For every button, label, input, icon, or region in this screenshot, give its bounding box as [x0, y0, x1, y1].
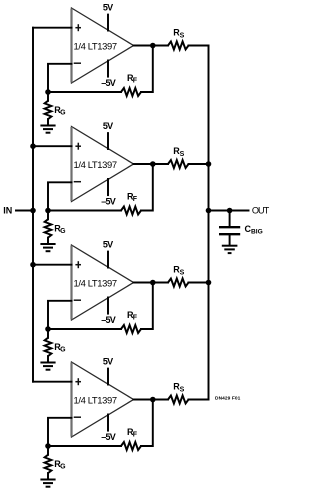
- wire: noninverting input of U1b from input bus: [33, 145, 72, 147]
- svg-text:5V: 5V: [103, 121, 113, 131]
- junction: output bus / stage 2: [206, 161, 212, 167]
- wire: output of U1c to RS: [134, 282, 169, 284]
- wire: inverting input of U1a down to summing node: [48, 64, 72, 92]
- junction: output feedback tap (stage 2): [150, 161, 156, 167]
- wire: RS (stage 4) to output bus: [189, 399, 209, 401]
- 5V supply pin of U1c: [103, 240, 113, 268]
- svg-text:–5V: –5V: [101, 432, 116, 442]
- resistor RF (stage 4): [121, 427, 141, 450]
- op-amp U1b 1/4 LT1397: [72, 127, 134, 202]
- svg-text:5V: 5V: [103, 357, 113, 367]
- op-amp U1a 1/4 LT1397: [72, 8, 134, 83]
- junction: output bus / OUT: [206, 208, 212, 214]
- junction: summing node (stage 3): [45, 326, 51, 332]
- wire: summing node to RF (stage 3): [48, 328, 121, 330]
- resistor RS (stage 2): [168, 146, 189, 168]
- ground: below RG (stage 3): [40, 363, 55, 370]
- svg-text:1/4 LT1397: 1/4 LT1397: [74, 395, 118, 406]
- junction: summing node (stage 2): [45, 208, 51, 214]
- svg-text:–5V: –5V: [101, 197, 116, 207]
- resistor RF (stage 2): [121, 191, 141, 214]
- svg-text:OUT: OUT: [252, 206, 270, 216]
- wire: noninverting input of U1a from input bus: [33, 27, 72, 29]
- wire: output of U1a to RS: [134, 45, 169, 47]
- 5V supply pin of U1b: [103, 121, 113, 149]
- resistor RG (stage 3): [45, 329, 67, 363]
- wire: output bus: [208, 46, 210, 400]
- svg-text:S: S: [180, 33, 185, 40]
- svg-text:S: S: [180, 270, 185, 277]
- junction: input bus / stage 2 input: [30, 143, 36, 149]
- svg-text:S: S: [180, 387, 185, 394]
- wire: output of U1b to RS: [134, 163, 169, 165]
- -5V supply pin of U1a: [101, 61, 116, 89]
- junction: OUT line / CBIG: [227, 208, 233, 214]
- wire: input bus: [32, 28, 34, 382]
- svg-text:G: G: [60, 228, 66, 235]
- junction: summing node (stage 1): [45, 89, 51, 95]
- junction: input bus / IN: [30, 208, 36, 214]
- wire: inverting input of U1c down to summing node: [48, 301, 72, 329]
- -5V supply pin of U1c: [101, 298, 116, 326]
- svg-text:G: G: [60, 347, 66, 354]
- resistor RF (stage 1): [121, 73, 141, 96]
- wire: feedback from output of U1b: [141, 164, 153, 211]
- 5V supply pin of U1d: [103, 357, 113, 385]
- ground: below RG (stage 2): [40, 244, 55, 251]
- wire: summing node to RF (stage 4): [48, 445, 121, 447]
- svg-text:–5V: –5V: [101, 315, 116, 325]
- resistor RS (stage 3): [168, 265, 189, 287]
- -5V supply pin of U1b: [101, 179, 116, 207]
- svg-text:1/4 LT1397: 1/4 LT1397: [74, 41, 118, 52]
- resistor RF (stage 3): [121, 310, 141, 333]
- junction: input bus / stage 3 input: [30, 262, 36, 268]
- svg-text:S: S: [180, 151, 185, 158]
- -5V supply pin of U1d: [101, 415, 116, 443]
- wire: inverting input of U1b down to summing node: [48, 182, 72, 210]
- svg-text:–5V: –5V: [101, 78, 116, 88]
- wire: feedback from output of U1a: [141, 46, 153, 93]
- wire: inverting input of U1d down to summing node: [48, 418, 72, 446]
- resistor RG (stage 4): [45, 446, 67, 480]
- wire: summing node to RF (stage 1): [48, 91, 121, 93]
- node IN: [3, 206, 33, 216]
- ground: below RG (stage 1): [40, 126, 55, 133]
- svg-text:F: F: [133, 432, 138, 439]
- resistor RG (stage 2): [45, 211, 67, 245]
- svg-text:IN: IN: [3, 206, 12, 216]
- svg-text:F: F: [133, 315, 138, 322]
- wire: summing node to RF (stage 2): [48, 210, 121, 212]
- svg-text:F: F: [133, 78, 138, 85]
- wire: RS (stage 3) to output bus: [189, 282, 209, 284]
- capacitor CBIG: [219, 211, 263, 245]
- wire: RS (stage 1) to output bus: [189, 45, 209, 47]
- op-amp U1c 1/4 LT1397: [72, 245, 134, 320]
- svg-text:1/4 LT1397: 1/4 LT1397: [74, 278, 118, 289]
- wire: feedback from output of U1d: [141, 400, 153, 447]
- svg-text:BIG: BIG: [251, 229, 263, 236]
- wire: noninverting input of U1d from input bus: [33, 381, 72, 383]
- svg-text:5V: 5V: [103, 240, 113, 250]
- wire: feedback from output of U1c: [141, 283, 153, 330]
- wire: output of U1d to RS: [134, 399, 169, 401]
- node OUT: [209, 206, 270, 216]
- svg-text:G: G: [60, 110, 66, 117]
- svg-text:DN429 F01: DN429 F01: [215, 395, 241, 401]
- wire: RS (stage 2) to output bus: [189, 163, 209, 165]
- svg-text:F: F: [133, 196, 138, 203]
- op-amp U1d 1/4 LT1397: [72, 362, 134, 437]
- junction: output feedback tap (stage 3): [150, 280, 156, 286]
- junction: output feedback tap (stage 1): [150, 43, 156, 49]
- svg-text:1/4 LT1397: 1/4 LT1397: [74, 159, 118, 170]
- svg-text:G: G: [60, 464, 66, 471]
- junction: summing node (stage 4): [45, 443, 51, 449]
- svg-text:5V: 5V: [103, 3, 113, 13]
- 5V supply pin of U1a: [103, 3, 113, 31]
- resistor RS (stage 1): [168, 28, 189, 50]
- ground: below RG (stage 4): [40, 480, 55, 487]
- wire: noninverting input of U1c from input bus: [33, 264, 72, 266]
- ground: below CBIG: [222, 246, 238, 253]
- resistor RS (stage 4): [168, 382, 189, 404]
- resistor RG (stage 1): [45, 92, 67, 126]
- junction: output bus / stage 3: [206, 280, 212, 286]
- junction: output feedback tap (stage 4): [150, 397, 156, 403]
